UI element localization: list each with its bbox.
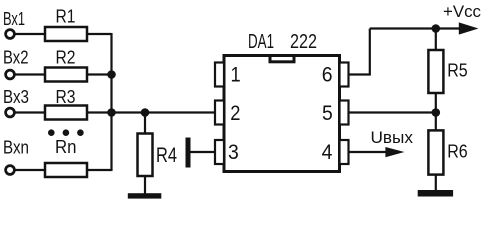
svg-text:3: 3 [228,140,239,164]
junction bus row3 [107,108,116,117]
wire R1 to bus [87,33,112,35]
svg-text:R6: R6 [447,141,468,162]
junction bus row2 [107,70,116,79]
pin 3 [215,140,239,164]
op-amp U DA1 body [224,56,340,172]
arrow Uвых [385,147,404,157]
resistor R4 [138,134,178,177]
wire R2 to bus [87,73,112,75]
wire pin 4 output [348,151,388,153]
junction Vcc / R5 [432,24,441,33]
resistor R3 [45,87,87,120]
wire Rn to bus [87,169,112,171]
label DA1 222 [248,31,317,53]
svg-text:5: 5 [322,101,333,125]
wire Vcc to R5 [435,29,437,51]
svg-text:Rn: Rn [55,137,77,157]
wire R6 to ground [435,175,437,190]
pin 1 [215,63,241,87]
wire pin 5 to divider node [348,111,436,113]
wire Вх3 to R3 [15,111,45,113]
resistor R6 [428,130,467,174]
wire +Vcc rail [370,27,462,29]
wire pin 6 to Vcc rail [348,29,370,75]
wire pin 3 stub [190,151,216,153]
ellipsis dots (more inputs) [48,129,84,136]
wire summing bus vertical [110,33,112,171]
resistor R5 [428,50,467,93]
resistor Rn [45,137,87,177]
svg-text:1: 1 [231,63,241,87]
wire bus to pin 2 [112,111,216,113]
svg-text:Вх2: Вх2 [3,48,29,68]
junction R4 tap [141,108,150,117]
pin 4 [322,140,349,164]
wire Вх1 to R1 [15,33,45,35]
wire Вх2 to R2 [15,73,45,75]
svg-text:Вх3: Вх3 [3,87,29,107]
terminal Вхn [6,166,15,175]
ground under R4 [128,193,162,198]
wire divider node to R6 [435,113,437,132]
pin 2 [215,101,241,126]
orientation notch [270,56,294,62]
wire Вхn to Rn [15,169,45,171]
ground under R6 [418,190,453,197]
svg-text:222: 222 [290,31,317,53]
svg-text:R5: R5 [447,60,468,81]
svg-text:2: 2 [230,101,240,125]
junction divider node [432,108,441,117]
terminal Вх1 [6,30,15,39]
svg-text:Вх1: Вх1 [3,9,25,29]
svg-text:R1: R1 [56,7,76,27]
arrow +Vcc [459,22,479,34]
svg-text:R3: R3 [56,87,76,107]
terminal Вх3 [6,108,15,117]
resistor R2 [45,48,87,82]
wire R3 to bus [87,111,112,113]
svg-text:R2: R2 [56,48,76,68]
svg-text:4: 4 [322,140,333,164]
terminal Вх2 [6,70,15,79]
wire R5 to divider node [435,93,437,113]
resistor R1 [45,7,87,42]
svg-text:R4: R4 [156,143,177,167]
wire R4 tap down [144,113,146,135]
svg-text:6: 6 [322,63,333,87]
svg-text:+Vcc: +Vcc [443,3,481,21]
wire R4 to ground [144,176,146,194]
svg-text:Вхn: Вхn [3,138,29,158]
svg-text:Uвых: Uвых [371,128,414,147]
svg-text:DA1: DA1 [248,31,274,53]
pin 6 [322,63,349,87]
pin 5 [322,101,349,126]
common bar at pin 3 [186,138,191,168]
